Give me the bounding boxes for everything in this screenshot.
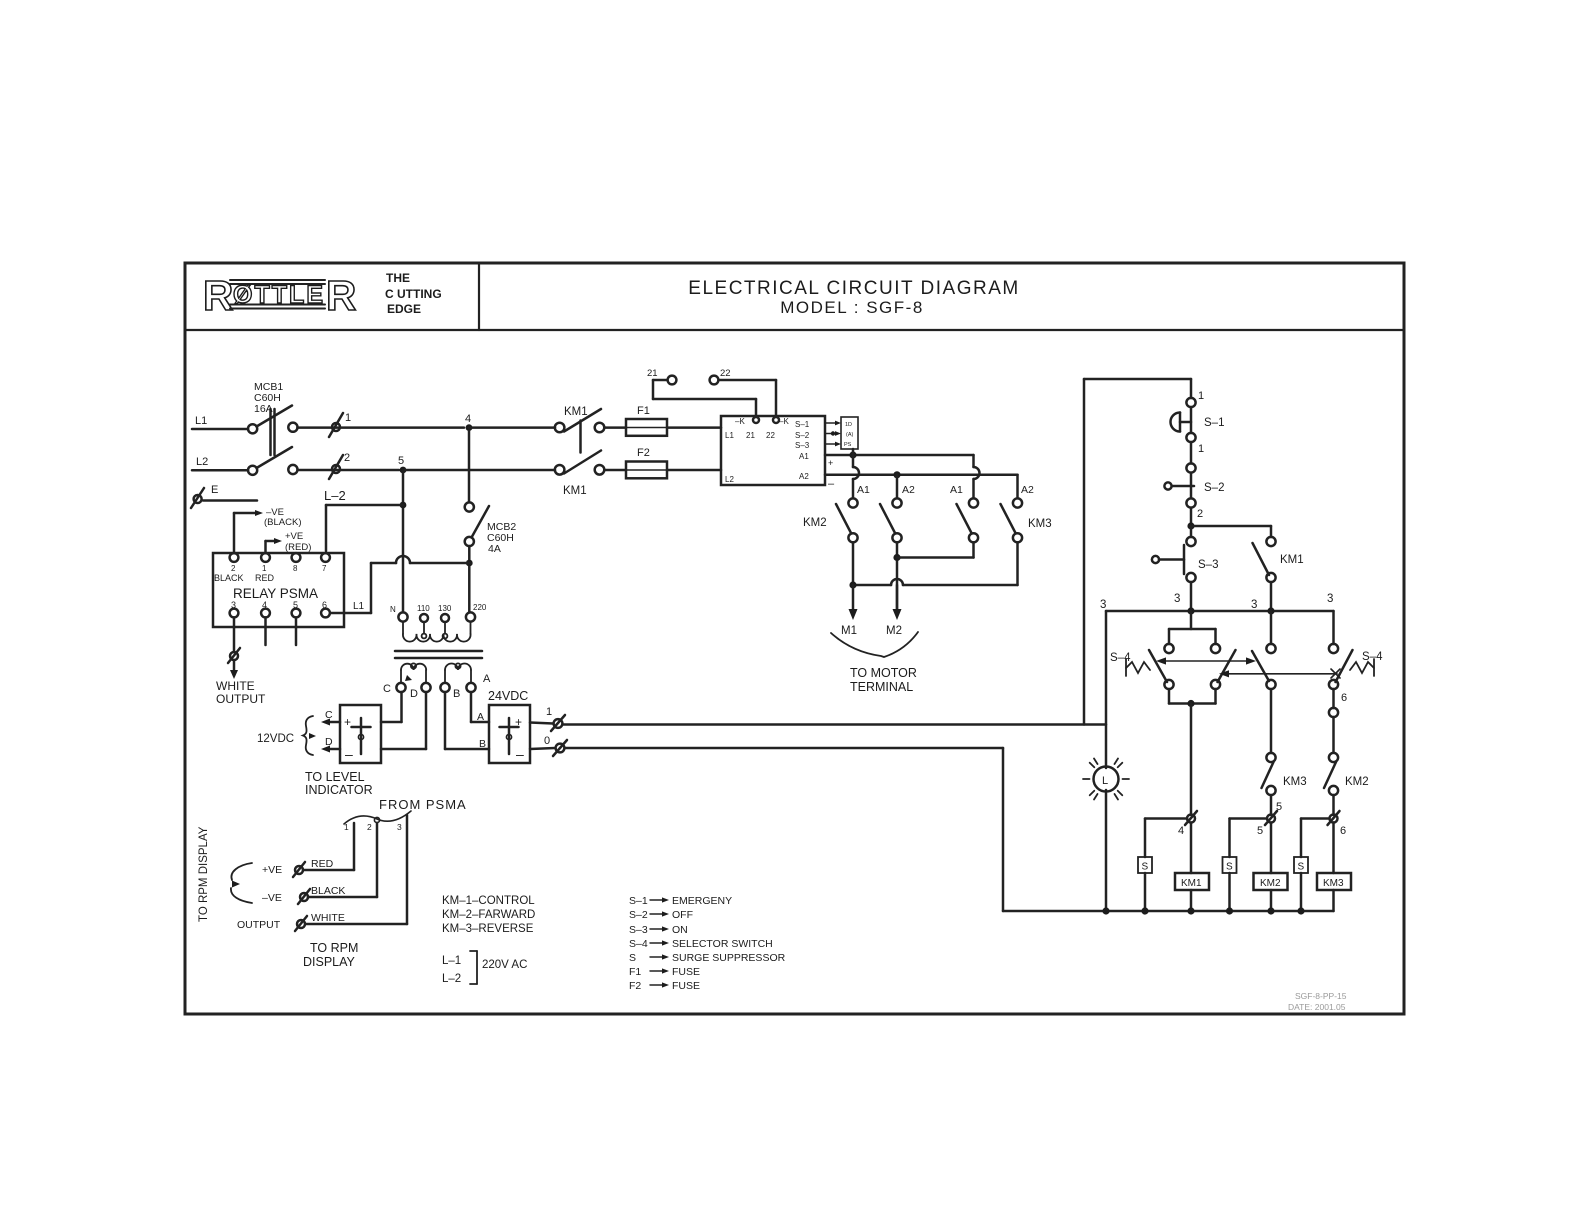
svg-text:B: B [453, 688, 460, 700]
suppressor S1 branch [1138, 819, 1187, 912]
wire KM3b link (hop over M2 wire) [853, 542, 1018, 585]
svg-text:–K: –K [779, 417, 789, 426]
svg-text:1: 1 [344, 822, 349, 832]
svg-text:TO MOTOR: TO MOTOR [850, 666, 917, 680]
svg-text:5: 5 [398, 455, 404, 467]
svg-text:KM2: KM2 [803, 517, 827, 529]
12VDC left leads C/D with arrows [321, 709, 340, 753]
ladder top feed wire [1084, 378, 1191, 381]
svg-text:3: 3 [1327, 593, 1333, 605]
wire A to 24VDC rectifier [471, 692, 489, 722]
wire pin1 to RED [303, 823, 354, 870]
terminal -VE BLACK [262, 885, 345, 904]
coil terminal labels [857, 484, 1034, 496]
brace 12VDC [303, 716, 313, 755]
brace to motor [831, 632, 918, 657]
svg-text:M2: M2 [886, 625, 902, 637]
control box pin labels [725, 417, 810, 484]
node 4 [466, 424, 473, 431]
wire KM3a link [897, 542, 974, 557]
svg-text:220: 220 [473, 603, 487, 612]
transformer core [395, 651, 482, 658]
svg-text:KM3: KM3 [1323, 878, 1344, 889]
svg-text:R: R [203, 272, 233, 319]
label TO RPM DISPLAY [303, 941, 358, 969]
svg-text:–: – [516, 746, 524, 762]
wire pin3 to WHITE [306, 815, 407, 924]
wire KM2a down [852, 542, 855, 585]
svg-text:21: 21 [746, 431, 755, 440]
svg-text:TO RPM DISPLAY: TO RPM DISPLAY [198, 826, 210, 922]
svg-text:KM–3–REVERSE: KM–3–REVERSE [442, 923, 534, 935]
svg-text:(RED): (RED) [285, 542, 311, 553]
svg-text:12VDC: 12VDC [257, 733, 294, 745]
svg-text:1: 1 [1198, 443, 1204, 455]
bottom bus 0 [1106, 910, 1334, 913]
relay terminal names [214, 573, 275, 583]
svg-text:C UTTING: C UTTING [385, 287, 442, 301]
transformer primary tap labels [390, 603, 487, 614]
svg-text:B: B [479, 738, 486, 750]
wire D to 12VDC rectifier [381, 692, 426, 749]
connector 21 [668, 376, 677, 385]
svg-text:S–1: S–1 [1204, 417, 1224, 429]
cable brace to RPM display [231, 863, 252, 903]
svg-text:1: 1 [546, 706, 552, 718]
jumper 21-22 wires [653, 380, 776, 416]
wire L2 lead [192, 469, 248, 472]
wire node4 down to MCB2 [468, 431, 471, 502]
suppressor S3 branch [1294, 819, 1330, 912]
svg-text:L1: L1 [353, 601, 365, 612]
svg-text:KM–1–CONTROL: KM–1–CONTROL [442, 895, 535, 907]
rectifier 12VDC block [340, 705, 381, 763]
svg-text:THE: THE [386, 271, 410, 285]
wire relay pin3 to white output [233, 618, 236, 652]
breaker MCB1 pole 2 [248, 447, 298, 475]
svg-text:S–2: S–2 [1204, 482, 1224, 494]
transformer T1 primary terminals [398, 612, 475, 622]
svg-text:22: 22 [766, 431, 775, 440]
junction MCB2/relay-L1 [466, 560, 473, 567]
wire A2 rail [825, 474, 1018, 477]
svg-text:L2: L2 [725, 475, 734, 484]
supply riser to ladder [1083, 379, 1086, 725]
svg-text:2: 2 [344, 452, 350, 464]
relay pin5 stub [295, 618, 298, 646]
svg-text:A2: A2 [902, 484, 915, 496]
wire S-4 to KM1 coil [1190, 704, 1193, 816]
svg-text:–: – [345, 746, 353, 762]
secondary terminal labels [383, 673, 491, 700]
svg-text:+VE: +VE [285, 531, 303, 542]
wire relay pin1 to +VE arrow [266, 538, 283, 553]
24VDC side labels A/B [477, 711, 486, 750]
svg-text:4A: 4A [488, 543, 501, 555]
svg-text:2: 2 [367, 822, 372, 832]
terminal 4 [1178, 811, 1197, 837]
secondary B-A terminals [440, 683, 475, 692]
svg-text:S: S [1226, 862, 1233, 873]
svg-text:–VE: –VE [262, 892, 282, 904]
junction A2 [893, 471, 900, 478]
relay PSMA box [213, 553, 344, 627]
terminal 1 [329, 412, 351, 437]
bus 3 left drop to lamp [1105, 611, 1108, 768]
doc number gray [1288, 991, 1347, 1012]
svg-text:220V AC: 220V AC [482, 959, 527, 971]
contactor KM1 main pole 1 [555, 409, 605, 432]
fuse F1 [626, 405, 667, 436]
wire S-1 to S-2 [1190, 442, 1193, 464]
svg-text:KM1: KM1 [1181, 878, 1202, 889]
svg-text:–: – [828, 478, 835, 490]
junction tee S-3/KM1 [1187, 522, 1194, 529]
svg-text:1: 1 [345, 412, 351, 424]
svg-text:3: 3 [1174, 593, 1180, 605]
svg-text:–K: –K [735, 417, 745, 426]
wire KM2b down to M2 [896, 542, 899, 611]
svg-text:2: 2 [1197, 508, 1203, 520]
relay pin4 stub [264, 618, 267, 646]
selector S-4 left pole [1149, 611, 1236, 704]
svg-text:F2: F2 [637, 447, 650, 459]
wire tee to KM1 aux [1191, 526, 1271, 537]
svg-text:F2: F2 [629, 980, 641, 992]
legend S list [629, 895, 786, 992]
svg-text:7: 7 [322, 564, 327, 573]
transformer secondary B-A [445, 663, 471, 683]
relay bottom pin numbers [231, 600, 327, 610]
wire KM1 to F1 [605, 426, 627, 429]
svg-text:D: D [325, 736, 333, 748]
rectifier 24VDC block [489, 705, 530, 763]
pushbutton S-1 emergency [1171, 407, 1225, 442]
svg-text:ELECTRICAL CIRCUIT DIAGRAM: ELECTRICAL CIRCUIT DIAGRAM [688, 278, 1019, 299]
svg-text:16A: 16A [254, 403, 273, 415]
wire B to 24VDC rectifier [445, 692, 489, 749]
svg-text:TO LEVEL: TO LEVEL [305, 770, 365, 784]
svg-text:L1: L1 [195, 415, 207, 427]
wire L1 lead [192, 428, 248, 431]
wire KM2 aux to term 6 [1332, 795, 1335, 815]
wire relay pin6 (L1) to MCB2 junction [330, 556, 469, 613]
svg-text:S: S [629, 952, 636, 964]
coupling arrow 1 [1156, 657, 1256, 664]
breaker MCB1 pole 1 [248, 406, 298, 456]
supply terminal 0 [530, 735, 567, 756]
contactor KM3 contact b [1001, 498, 1023, 542]
relay top pin numbers [231, 564, 327, 573]
wire relay pin2 to -VE arrow [234, 510, 263, 553]
svg-text:8: 8 [293, 564, 298, 573]
svg-text:S–1: S–1 [795, 420, 810, 429]
border frame [185, 263, 1404, 1014]
connector pin labels 1 2 3 [344, 822, 402, 832]
svg-text:DISPLAY: DISPLAY [303, 955, 356, 969]
supply wire 1 [563, 723, 1107, 726]
node 1 upper [1186, 398, 1195, 407]
svg-text:WHITE: WHITE [311, 912, 345, 924]
svg-text:SURGE SUPPRESSOR: SURGE SUPPRESSOR [672, 952, 786, 964]
secondary C-D terminals [396, 683, 430, 692]
svg-text:FROM PSMA: FROM PSMA [379, 797, 467, 812]
wire A2 down to KM3 second terminal [1016, 475, 1019, 498]
coil KM3 [1317, 823, 1351, 912]
lamp to bottom bus [1105, 790, 1108, 911]
contactor KM2 contact b [880, 498, 902, 542]
svg-text:TERMINAL: TERMINAL [850, 680, 913, 694]
svg-text:OUTPUT: OUTPUT [237, 919, 281, 931]
supply wire 0 [565, 748, 1107, 911]
svg-text:C: C [325, 709, 333, 721]
svg-text:24VDC: 24VDC [488, 689, 528, 703]
svg-text:A1: A1 [857, 484, 870, 496]
svg-text:BLACK: BLACK [311, 885, 345, 897]
wire A1 down to KM2 coil terminal (hop over A2) [853, 455, 859, 498]
svg-text:130: 130 [438, 604, 452, 613]
svg-text:KM1: KM1 [564, 406, 588, 418]
terminal OUTPUT WHITE [237, 912, 345, 931]
svg-text:0: 0 [544, 735, 550, 747]
wire A1 down to KM3 (hop over A2) [974, 455, 980, 498]
wires S1 S2 S3 into suppressor [825, 421, 841, 447]
coupling arrow 2 [1219, 669, 1340, 678]
svg-text:ON: ON [672, 924, 688, 936]
terminal 6 [1328, 811, 1347, 837]
wire node5 down to transformer N [402, 470, 405, 612]
svg-text:R: R [326, 272, 356, 319]
svg-text:110: 110 [417, 604, 430, 613]
svg-text:E: E [211, 484, 218, 496]
selector S-4 right pole [1329, 611, 1353, 752]
transformer primary winding [403, 622, 471, 642]
svg-text:L–2: L–2 [324, 488, 346, 503]
contactor KM3 contact a [957, 498, 979, 542]
svg-text:KM3: KM3 [1283, 776, 1307, 788]
svg-text:21: 21 [647, 368, 658, 379]
svg-text:L–1: L–1 [442, 955, 461, 967]
wire row1 to node 4 [298, 426, 465, 429]
wire C to 12VDC rectifier [381, 692, 402, 722]
svg-text:L2: L2 [196, 456, 208, 468]
svg-text:S–4: S–4 [629, 938, 648, 950]
svg-text:4: 4 [465, 413, 471, 425]
contactor KM2 contact a [836, 498, 858, 542]
wire pin2 to BLACK [308, 823, 377, 897]
label MCB1 C60H 16A [254, 381, 283, 415]
label -VE (BLACK) [264, 507, 301, 528]
svg-text:S–3: S–3 [795, 441, 810, 450]
svg-text:D: D [410, 688, 418, 700]
svg-text:A1: A1 [950, 484, 963, 496]
junction KM2b / KM3a link [893, 554, 900, 561]
svg-text:M1: M1 [841, 625, 857, 637]
pin mark 22 on box [773, 417, 779, 423]
svg-text:(BLACK): (BLACK) [264, 517, 301, 528]
svg-text:1: 1 [262, 564, 267, 573]
KM1 mechanical link [579, 421, 582, 453]
svg-text:EDGE: EDGE [387, 302, 421, 316]
terminal 2 [329, 452, 350, 479]
wire A1 rail [825, 454, 974, 457]
pin mark 21 on box [753, 417, 759, 423]
svg-text:A2: A2 [799, 472, 809, 481]
relay bottom terminals [230, 609, 330, 618]
contactor KM1 main pole 2 [555, 451, 605, 475]
svg-text:S–2: S–2 [629, 909, 648, 921]
svg-text:KM3: KM3 [1028, 518, 1052, 530]
terminal 5 [1257, 811, 1277, 837]
contact KM2 aux [1324, 753, 1369, 795]
wire node4 to KM1 [469, 426, 555, 429]
svg-text:OFF: OFF [672, 909, 693, 921]
svg-text:A: A [483, 673, 491, 685]
svg-text:3: 3 [1251, 599, 1257, 611]
coil KM2 [1254, 823, 1288, 912]
suppressor S2 branch [1223, 819, 1268, 912]
svg-text:2: 2 [231, 564, 236, 573]
wire node5 to KM1 pole2 [403, 469, 555, 472]
svg-text:S–3: S–3 [629, 924, 648, 936]
supply terminal 1 [530, 706, 565, 731]
wire L-2 [326, 505, 403, 551]
svg-text:3: 3 [397, 822, 402, 832]
svg-text:1: 1 [1198, 390, 1204, 402]
svg-text:KM2: KM2 [1345, 776, 1369, 788]
fuse F2 [626, 447, 667, 478]
svg-text:WHITE: WHITE [216, 679, 255, 693]
title [688, 278, 1019, 317]
svg-text:S: S [1298, 862, 1305, 873]
wire KM3 aux to term 5 [1270, 795, 1273, 815]
svg-text:S–4: S–4 [1110, 652, 1131, 664]
spring S-4 left [1126, 659, 1150, 676]
contact KM1 aux [1253, 537, 1304, 582]
control box U1 [721, 416, 825, 485]
svg-text:DATE: 2001.05: DATE: 2001.05 [1288, 1002, 1346, 1012]
svg-text:A: A [477, 711, 484, 723]
svg-text:BLACK: BLACK [214, 573, 244, 583]
arrow M1 [841, 585, 858, 637]
node 5 [400, 467, 407, 474]
ROTTLER logo [203, 271, 442, 319]
svg-text:TO RPM: TO RPM [310, 941, 358, 955]
svg-text:OUTPUT: OUTPUT [216, 692, 266, 706]
svg-text:PS: PS [844, 442, 852, 448]
wire S-3 to bus 3 [1190, 582, 1193, 611]
svg-text:+: + [344, 715, 351, 729]
bus junction dots [1102, 907, 1304, 914]
lamp L [1083, 756, 1129, 802]
spring S-4 right [1350, 659, 1374, 676]
wire F2 to control box [667, 469, 721, 472]
svg-text:RED: RED [311, 858, 334, 870]
terminal white output [228, 648, 240, 663]
svg-text:A2: A2 [1021, 484, 1034, 496]
arrow M2 [886, 585, 902, 637]
svg-text:S–3: S–3 [1198, 559, 1218, 571]
svg-text:KM–2–FARWARD: KM–2–FARWARD [442, 909, 535, 921]
svg-text:MODEL : SGF-8: MODEL : SGF-8 [780, 298, 924, 317]
label WHITE OUTPUT [216, 679, 266, 706]
svg-text:FUSE: FUSE [672, 980, 700, 992]
bus 3 [1106, 610, 1334, 613]
svg-text:FUSE: FUSE [672, 966, 700, 978]
svg-text:F1: F1 [637, 405, 650, 417]
label TO LEVEL INDICATOR [305, 770, 373, 797]
svg-text:L1: L1 [725, 431, 734, 440]
junction M1 [849, 581, 856, 588]
wire S-2 to tee [1190, 508, 1193, 526]
label +VE (RED) [285, 531, 311, 553]
pushbutton S-3 on [1152, 526, 1219, 582]
svg-text:RELAY PSMA: RELAY PSMA [233, 586, 318, 601]
breaker MCB2 [465, 502, 489, 546]
svg-text:6: 6 [1341, 692, 1347, 704]
svg-text:S–4: S–4 [1362, 651, 1383, 663]
junction A1 [849, 451, 856, 458]
wire MCB2 to junction [468, 546, 471, 612]
svg-text:S–2: S–2 [795, 431, 810, 440]
contact KM3 aux [1262, 753, 1307, 795]
legend arrows [650, 897, 669, 987]
svg-text:5: 5 [1257, 825, 1263, 837]
wire row2 to node 5 [298, 469, 400, 472]
node 3 labels [1100, 593, 1333, 611]
svg-text:L–2: L–2 [442, 973, 461, 985]
legend L-1 L-2 220V AC [442, 951, 527, 985]
stub junction to suppressor [852, 449, 855, 455]
svg-text:SELECTOR SWITCH: SELECTOR SWITCH [672, 938, 773, 950]
svg-text:6: 6 [1340, 825, 1346, 837]
svg-text:C: C [383, 683, 391, 695]
junction L-2 tee [400, 502, 407, 509]
wire F1 to control box [667, 426, 721, 429]
svg-text:L: L [1102, 775, 1108, 787]
svg-text:RED: RED [255, 573, 275, 583]
coil KM1 [1175, 823, 1209, 912]
svg-text:S–1: S–1 [629, 895, 648, 907]
label MCB2 C60H 4A [487, 521, 516, 555]
transformer secondary C-D [401, 663, 426, 683]
wire KM1 aux to bus 3 [1270, 582, 1273, 611]
svg-text:F1: F1 [629, 966, 641, 978]
wire KM1 to F2 [605, 469, 627, 472]
surge suppressor box at control [841, 417, 858, 449]
junction S-4 center [1187, 700, 1194, 707]
svg-text:3: 3 [1100, 599, 1106, 611]
svg-text:KM1: KM1 [563, 485, 587, 497]
svg-text:SGF-8-PP-15: SGF-8-PP-15 [1295, 991, 1347, 1001]
cable wave from PSMA [344, 811, 411, 824]
svg-text:4: 4 [1178, 825, 1184, 837]
svg-text:ØTTLE: ØTTLE [233, 281, 323, 309]
terminal +VE RED [262, 858, 334, 877]
arrow white output [230, 661, 238, 679]
svg-text:KM1: KM1 [1280, 554, 1304, 566]
wire A2 down to KM2 second terminal [896, 475, 899, 498]
svg-text:N: N [390, 605, 396, 614]
svg-text:+VE: +VE [262, 864, 282, 876]
svg-text:S: S [1142, 862, 1149, 873]
earth terminal E [191, 484, 257, 508]
svg-text:+: + [828, 458, 833, 468]
connector 22 [710, 376, 719, 385]
wire to S-1 [1190, 379, 1193, 398]
svg-text:22: 22 [720, 368, 731, 379]
svg-text:KM2: KM2 [1260, 878, 1281, 889]
